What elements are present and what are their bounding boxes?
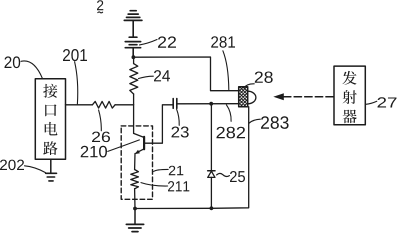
led 28 body — [239, 87, 248, 107]
leader 281 — [223, 51, 229, 90]
wire resistor 211 to bottom junction — [134, 189, 136, 209]
wire bottom junction to ground — [134, 209, 136, 224]
ground (top, above battery 22) — [124, 11, 142, 21]
wire emitter to resistor 211 — [134, 154, 136, 170]
leader 201 — [75, 62, 78, 104]
ground (bottom, below resistor 211) — [126, 224, 143, 231]
label 20 — [5, 56, 21, 68]
battery 22 — [125, 37, 140, 48]
ground 202 — [46, 173, 57, 181]
label 23 — [172, 127, 189, 138]
chinese text fa she qi — [343, 71, 357, 123]
wire 283 led down and bottom rail — [135, 107, 249, 209]
leader 22 — [140, 40, 158, 45]
label 282 — [217, 127, 246, 139]
transistor 210 collector diagonal — [134, 133, 144, 137]
leader 21 — [154, 169, 169, 171]
leader 283 — [249, 119, 260, 123]
leader 24 — [139, 76, 154, 78]
label 28 — [255, 72, 273, 83]
leader 28 — [244, 84, 254, 88]
resistor 211 — [131, 170, 139, 189]
dashed module box 21 — [121, 126, 152, 199]
label 281 — [211, 36, 235, 48]
wire resistor 26 to collector line — [115, 104, 134, 106]
wire box 20 to ground 202 — [50, 159, 52, 173]
wire top rail to corner — [133, 57, 238, 91]
diode 25 — [208, 171, 215, 178]
transistor 210 base lead — [144, 105, 173, 143]
junction node 282 — [209, 102, 213, 106]
wire ground to battery 22 — [132, 20, 134, 37]
junction node (battery / resistor 24 / wire 281) — [132, 55, 136, 59]
diode 25 wire lower — [210, 177, 212, 208]
label 25 — [230, 171, 245, 182]
capacitor 23 plates — [173, 99, 177, 109]
leader 27 — [366, 101, 377, 104]
tilde under figure label 2 — [98, 11, 103, 14]
resistor 26 — [92, 101, 115, 108]
dashed arrow from transmitter 27 to led 28 — [273, 93, 334, 100]
label 201 — [63, 49, 87, 61]
junction node emitter bottom — [133, 207, 137, 211]
leader 211 — [141, 183, 168, 186]
label 22 — [158, 36, 176, 47]
leader 210 — [108, 140, 140, 152]
label 283 — [261, 116, 289, 129]
label 24 — [154, 70, 170, 81]
chinese text jie kou dian lu — [43, 84, 57, 155]
interface circuit box 20 — [35, 79, 65, 160]
resistor 24 — [130, 57, 138, 94]
wire box 20 to resistor 26 — [66, 104, 93, 106]
transistor 210 emitter arrow — [135, 150, 140, 154]
label 202 — [0, 160, 24, 171]
leader 282 — [226, 105, 231, 122]
junction node diode bottom — [210, 206, 214, 210]
label 211 — [168, 181, 189, 191]
transmitter box 27 — [334, 66, 365, 125]
label 21 — [169, 166, 184, 176]
leader 26 — [99, 110, 102, 131]
transistor 210 emitter — [136, 149, 144, 153]
wire capacitor 23 to node 282 — [177, 103, 239, 105]
leader tilde 25 — [217, 173, 230, 176]
diode 25 wire upper — [210, 104, 212, 171]
leader 202 — [25, 166, 46, 173]
leader 23 — [177, 109, 180, 125]
wire resistor 24 to transistor collector — [133, 94, 135, 133]
label 26 — [92, 132, 110, 143]
wire battery to junction — [132, 48, 134, 58]
label 27 — [378, 97, 397, 107]
figure label 2 — [97, 0, 103, 10]
led 28 dome — [248, 91, 256, 104]
label 210 — [81, 146, 107, 158]
leader 20 — [21, 61, 42, 78]
transistor 210 base bar — [143, 137, 145, 149]
